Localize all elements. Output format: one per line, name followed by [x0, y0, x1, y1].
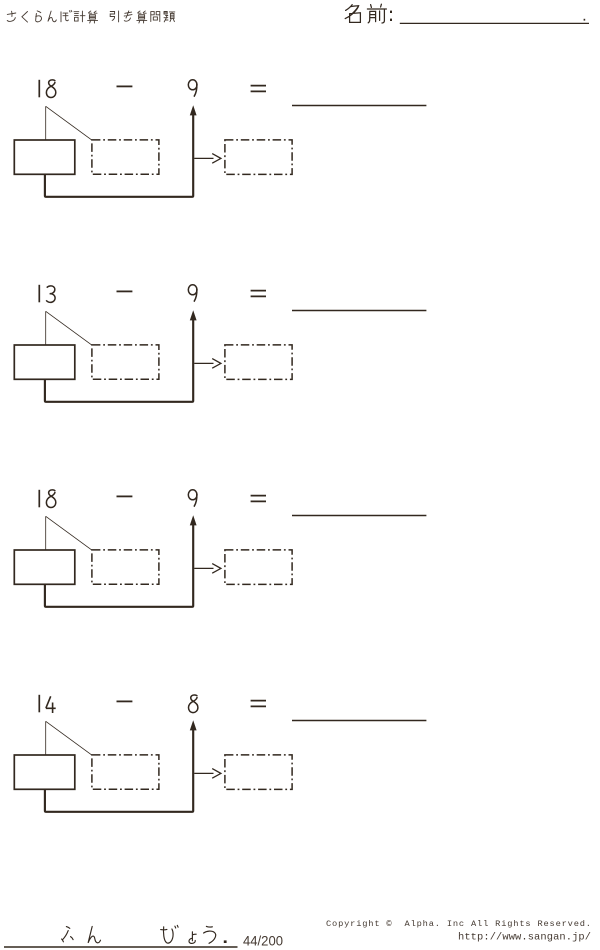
svg-text:44/200: 44/200: [243, 932, 283, 948]
svg-text:http://www.sangan.jp/: http://www.sangan.jp/: [458, 931, 591, 943]
svg-text:Copyright © Alpha. Inc All Ri: Copyright © Alpha. Inc All Rights Reserv…: [326, 919, 591, 929]
